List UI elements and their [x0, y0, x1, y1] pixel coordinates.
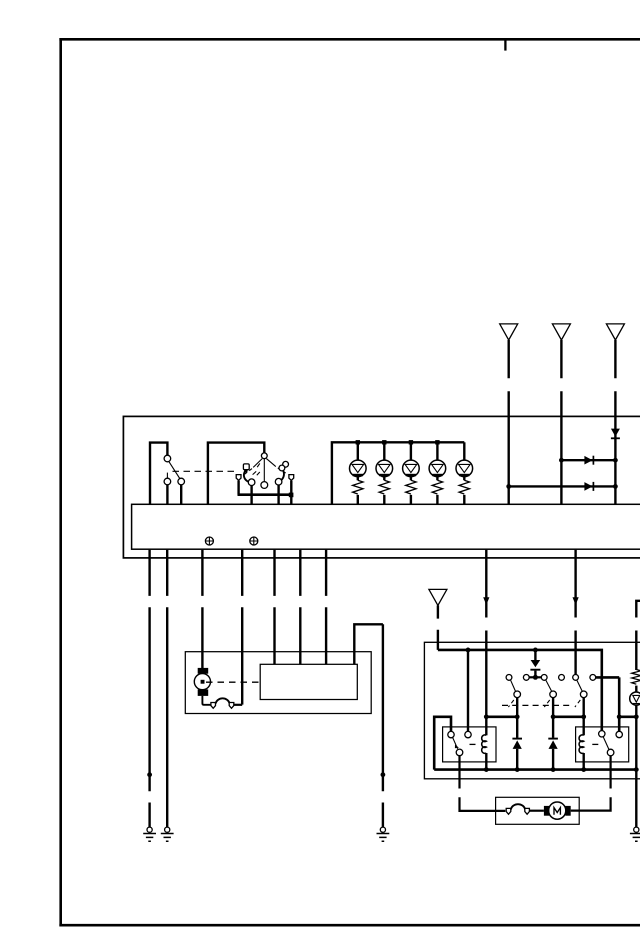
switch S1 (handlebar switch) [164, 455, 184, 485]
switch pole P3 [575, 680, 587, 707]
junction J19 [617, 714, 622, 719]
wire: pole P2 drop [552, 698, 554, 717]
connector terminal C4 [506, 808, 511, 814]
LED L2 [376, 442, 393, 476]
wire: lamp branch to ground [635, 705, 637, 827]
resistor R6 [632, 670, 640, 685]
wire: relay feed b [574, 550, 576, 675]
junction J14 [533, 675, 538, 680]
junction J6 [559, 458, 564, 463]
junction J10 [147, 772, 152, 777]
mechanical linkage SW (dashed) [502, 704, 571, 706]
wire: S2 output bus [238, 493, 293, 496]
mechanical linkage M1 (dashed) [206, 681, 259, 683]
wire: pole P1 drop [516, 698, 518, 717]
servo motor M1 [194, 668, 210, 696]
junction J23 [551, 767, 556, 772]
connector hump C5 [511, 804, 525, 809]
wire: bus to relay RY1 contact [467, 650, 469, 731]
resistor R5 [459, 477, 469, 505]
diode D2 [584, 456, 593, 465]
resistor R4 [432, 477, 442, 505]
wire: diode row 1 [561, 459, 615, 461]
junction J13 [533, 648, 538, 653]
wire: ground lead 1 [148, 550, 150, 827]
wire: S1 terminal b [180, 485, 182, 505]
LED L1 [350, 442, 367, 476]
connector terminal C6 [525, 808, 530, 814]
relay unit enclosure [424, 642, 640, 779]
junction J1 [289, 493, 294, 498]
resistor R1 [353, 477, 363, 505]
junction J20 [634, 714, 639, 719]
wire: relay unit top bus [438, 650, 602, 731]
diode D6 [548, 717, 558, 770]
wire: diode row 2 [509, 485, 616, 487]
ground G4 [630, 827, 640, 841]
wire: S2 left terminal [237, 481, 239, 495]
wire: S2 pole b [277, 485, 279, 504]
wire: control unit ground lead [354, 624, 383, 827]
wire: S1 terminal a [166, 485, 168, 505]
servo unit enclosure [185, 652, 371, 714]
wire: indicator lamp rail [332, 442, 464, 504]
junction J9 [613, 484, 618, 489]
switch bank SW fixed contacts [506, 675, 596, 681]
junction J7 [613, 458, 618, 463]
wire: control unit input b [299, 550, 301, 665]
junction J12 [466, 648, 471, 653]
junction J18 [581, 714, 586, 719]
meter assembly enclosure U1 [123, 416, 640, 558]
control unit box U2 [260, 664, 357, 699]
wire: S2 pole a [250, 486, 252, 505]
flow arrow F1 [483, 597, 489, 605]
wire: switch S1 feed [150, 443, 167, 505]
switch S2 (main rotary switch) [236, 453, 293, 489]
mechanical linkage S1-S2 (dashed) [173, 470, 238, 472]
LED L6 [630, 686, 640, 706]
wire: net A horizontal [486, 715, 517, 718]
relay RY1 box [443, 727, 496, 762]
junction J16 [515, 714, 520, 719]
starter motor enclosure [496, 797, 580, 824]
switch pole P2 [544, 680, 556, 707]
relay RY1 armature [453, 737, 476, 755]
wire: S2 right terminal [290, 481, 292, 505]
off-page connector arrow A3 [606, 324, 624, 340]
wire: RY2 armature to starter [571, 756, 611, 811]
junction J17 [551, 714, 556, 719]
diode D5 [512, 717, 522, 770]
wire: right branch feed [636, 601, 640, 670]
wire: RY1 armature to starter [460, 756, 506, 811]
junction J8 [506, 484, 511, 489]
connector hump C2 [216, 698, 230, 703]
terminal screw T2 [250, 537, 258, 545]
diode D3 [584, 482, 593, 491]
relay RY2 armature [592, 737, 614, 756]
wire: arrow A4 lead [437, 605, 439, 650]
wire: arrow A1 lead [508, 340, 510, 504]
wire: switch S2 feed [208, 443, 264, 505]
relay RY1 coil [482, 717, 487, 770]
ground G3 [377, 827, 390, 841]
wire: servo motor return [241, 550, 243, 705]
terminal screw T1 [205, 537, 213, 545]
flow arrow F2 [573, 597, 579, 605]
wire: D4 to contacts [529, 676, 541, 678]
LED L4 [429, 442, 446, 476]
wire: control unit input a [273, 550, 275, 665]
connector terminal C1 [211, 703, 216, 709]
LED L5 [456, 442, 473, 476]
wire: pole P3 drop [583, 698, 585, 717]
relay RY2 contact terminals [599, 731, 623, 738]
wire: ground lead 2 [166, 550, 168, 827]
wire: contact to lamp branch [596, 677, 637, 731]
wire: net B horizontal [553, 715, 584, 718]
ground G1 [143, 827, 156, 841]
LED L3 [403, 442, 420, 476]
junction J3 [382, 440, 386, 444]
ground G2 [161, 827, 174, 841]
wire: arrow A3 lead [614, 340, 616, 504]
junction J5 [435, 440, 439, 444]
wire: arrow A2 lead [560, 340, 562, 504]
junction J21 [484, 767, 489, 772]
wire: connector to motor M2 [530, 810, 544, 812]
junction J11 [381, 772, 386, 777]
relay RY2 coil [579, 717, 584, 770]
wire: RY1 contact to bottom bus [434, 717, 451, 770]
off-page connector arrow A1 [500, 324, 518, 340]
wire: relay feed a [485, 550, 487, 717]
wire: control unit input c [325, 550, 327, 665]
switch pole P1 [508, 680, 520, 707]
relay RY1 contact terminals [448, 731, 471, 737]
junction J15 [484, 714, 489, 719]
junction J24 [581, 767, 586, 772]
connector bus strip [132, 504, 640, 549]
junction J2 [356, 440, 360, 444]
connector terminal C3 [229, 703, 234, 709]
wire: relay unit bottom bus [434, 768, 636, 771]
junction J22 [515, 767, 520, 772]
wire: connector to return [234, 704, 242, 706]
wire: motor M1 bottom lead [202, 696, 210, 705]
wire: servo motor feed [201, 550, 203, 669]
off-page connector arrow A4 [429, 589, 447, 605]
relay RY2 box [576, 727, 629, 762]
diode D1 [611, 429, 620, 439]
starter motor M2 [544, 802, 571, 819]
diode D4 [530, 650, 540, 677]
junction J25 [634, 767, 639, 772]
resistor R2 [379, 477, 389, 505]
junction J4 [409, 440, 413, 444]
off-page connector arrow A2 [552, 324, 570, 340]
resistor R3 [406, 477, 416, 505]
